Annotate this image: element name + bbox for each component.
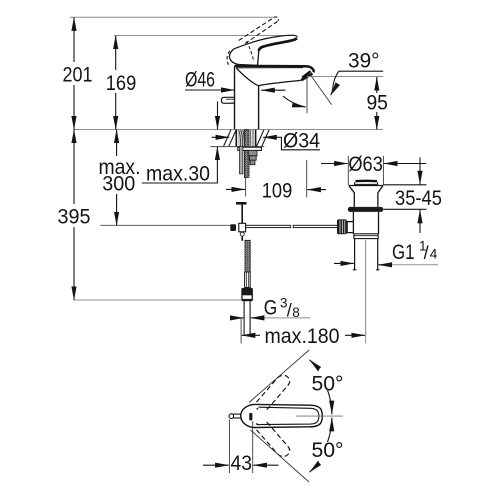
svg-text:max.180: max.180 [265,324,340,348]
dimension 109 right arrow [307,189,326,191]
svg-text:35-45: 35-45 [395,186,442,210]
dimension 43 extension lines [228,420,230,474]
horizontal linkage rod segment 2 [293,225,337,227]
horizontal linkage rod segment 1 [246,225,291,227]
svg-text:39°: 39° [348,49,380,73]
drain plug cap top thick [355,180,377,183]
lever nub stem [233,413,241,415]
spout top inner thin line [236,67,303,69]
svg-text:300: 300 [102,172,135,196]
lever hidden cartridge dashed line [247,41,254,62]
svg-text:169: 169 [106,71,137,95]
dimension max.300 vertical line [116,130,118,157]
dimension 35-45 upper arrow [419,158,421,185]
linkage joint block [239,223,246,232]
svg-text:G1: G1 [392,240,415,264]
lever black mark [249,413,252,421]
dimension 43 right arrow [253,464,278,466]
svg-text:95: 95 [366,91,388,115]
dimension Ø46 leader left arrow [185,89,235,91]
lever centerline [296,415,343,417]
lever nub circle [229,414,234,419]
drain side port [347,222,353,233]
drain flange top [349,185,384,187]
drain flange bevels [349,186,354,207]
lower 50° diagonal line [251,430,310,482]
G1 1/4 left-pointing arrow [378,264,391,266]
dashed raised lever line 1 [239,17,274,40]
spout tip end face [302,71,310,77]
lever wing underside thick [259,38,297,51]
lever inner panel line [257,407,319,424]
drain knurled knob [337,219,347,234]
max300 bottom reference / linkage left line [100,224,231,226]
svg-text:4: 4 [430,247,438,262]
dimension 395 vertical line [73,130,75,205]
dimension 43 left arrow [203,464,229,466]
top extension line (201 top / raised lever tip) [70,16,275,18]
drain collar [354,234,378,239]
hose curves in shank [238,130,244,147]
dimension 109 left arrow [226,188,245,190]
svg-text:G: G [264,296,278,320]
lower reference line (395 bottom) [74,299,241,301]
39° arc with arrow at slanted line [331,71,339,95]
pop-up knob inner line [226,98,235,100]
pop-up knob on back of body [221,97,234,103]
dimension 95 vertical arrows [376,77,378,93]
lower 50° arc segment at diagonal [310,461,319,472]
dashed lever rotated down [256,422,289,457]
lever small dots [257,408,259,410]
shank outer walls through deck [235,130,237,147]
lever side view: base left profile [229,49,237,65]
G1 1/4 right-pointing arrow at left pipe wall [334,262,354,264]
mounting washer [238,147,262,150]
drain centerline [365,240,367,344]
svg-text:/: / [424,243,429,263]
max.180 extension line left [240,318,242,344]
svg-text:Ø46: Ø46 [185,68,215,92]
lever neck right edge [258,51,259,66]
lever outer outline [241,404,323,427]
dimension Ø63 left arrow [321,163,348,165]
dimension 95 extension line [307,76,383,78]
svg-text:201: 201 [63,63,93,87]
drain tailpipe walls [354,239,356,270]
max.180 left arrow [242,334,260,336]
dimension 35-45 lower arrow [419,210,421,233]
upper 50° arc segment at diagonal [310,360,319,371]
extension line 169 top / lever tip [114,35,294,37]
39° leader line [339,70,383,72]
dashed lever rotated up [256,375,289,410]
max.180 right arrow [345,334,365,336]
G3/8 left-pointing arrow [251,317,263,319]
drain o-ring seal [348,207,384,212]
deck hatching left [224,130,231,146]
G1 1/4 underline leader [381,264,438,266]
dashed raised lever tip cap [274,17,278,21]
svg-text:109: 109 [262,179,293,203]
dimension Ø34 right arrow with leader [263,137,320,150]
deck bottom line [210,146,264,148]
dashed raised lever line 2 [245,21,278,44]
svg-text:43: 43 [231,451,253,475]
dimension Ø63 right arrow [384,163,426,165]
dimension 35-45 extension lines [383,184,426,186]
threaded shank rod (braided texture) upper [244,130,249,178]
dashed raised lever base arc [227,51,230,65]
dimension 169 vertical line [115,36,117,71]
39° vertical reference leg [306,77,308,114]
39° slanted reference line [310,74,332,105]
spout top edge thick [235,66,314,72]
dimension 109 extension line right [306,160,308,197]
dimension 201 vertical line with arrows [73,17,75,62]
mounting nut steps [248,150,257,155]
spout aerator slanted bar [301,74,312,81]
hose lower plain tube [245,272,251,288]
tailpipe end ticks [353,269,357,271]
lever base bottom line [237,63,258,66]
svg-text:Ø63: Ø63 [348,152,383,176]
hose end nut [241,288,253,301]
dimension Ø34 left arrow [212,136,230,138]
svg-text:50°: 50° [312,372,344,396]
shank inner lines [250,130,252,147]
G3/8 underline leader [252,317,310,319]
svg-text:50°: 50° [312,438,344,462]
G3/8 pipe walls [243,301,245,335]
flexible hose lower braided section [245,240,250,272]
supply hose gray rod below deck [240,147,243,174]
dimension max.30 leader and up-arrow [142,147,218,183]
lever wing top edge [234,35,297,49]
dimension max.30 upper down-arrow [217,102,219,130]
upper 50° arc segment at centerline [328,390,332,414]
svg-text:8: 8 [292,305,300,320]
39° arc with arrow at vertical line [283,96,306,107]
svg-text:Ø34: Ø34 [283,129,320,153]
faucet body left edge [234,66,236,129]
faucet body right edge [258,86,260,130]
dimension Ø46 right arrow [261,89,285,91]
drain plug cap lip [354,183,378,185]
svg-text:395: 395 [58,205,91,229]
svg-text:/: / [287,301,292,321]
pop-up rod ball [240,232,244,236]
dimension 109 extension line left [245,177,247,197]
lower 50° arc segment at centerline [328,418,332,442]
upper 50° diagonal line [249,350,309,403]
countertop deck line [74,129,383,131]
pop-up rod top cap [236,202,247,205]
dimension Ø63 extension lines [347,156,349,185]
spout underside curve [236,68,301,86]
deck hatching right [257,130,264,146]
drain body walls [352,212,354,234]
G3/8 right-pointing arrow at left pipe wall [232,317,244,319]
svg-text:max.30: max.30 [146,162,210,186]
linkage clamp knob [230,224,236,231]
pop-up rod vertical [241,205,243,241]
